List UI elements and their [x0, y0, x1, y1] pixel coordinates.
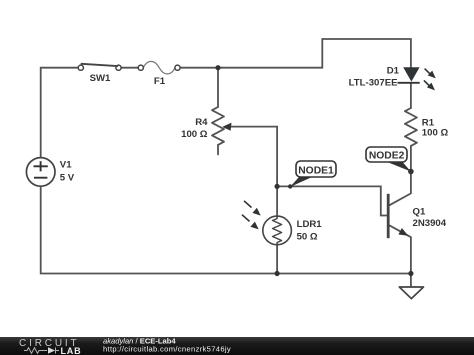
svg-text:50 Ω: 50 Ω — [297, 231, 318, 242]
svg-text:100 Ω: 100 Ω — [181, 129, 208, 140]
svg-text:F1: F1 — [154, 76, 166, 87]
svg-text:R4: R4 — [195, 117, 208, 128]
svg-text:5 V: 5 V — [60, 172, 75, 183]
svg-text:2N3904: 2N3904 — [413, 218, 447, 229]
svg-text:Q1: Q1 — [413, 206, 426, 217]
svg-text:D1: D1 — [387, 65, 400, 76]
svg-text:SW1: SW1 — [90, 73, 111, 84]
svg-text:V1: V1 — [60, 160, 72, 171]
svg-text:LDR1: LDR1 — [297, 219, 323, 230]
svg-text:LTL-307EE: LTL-307EE — [349, 77, 398, 88]
svg-text:LAB: LAB — [61, 346, 82, 355]
svg-text:NODE1: NODE1 — [298, 166, 334, 177]
svg-text:100 Ω: 100 Ω — [422, 128, 449, 139]
svg-text:NODE2: NODE2 — [369, 151, 405, 162]
svg-text:http://circuitlab.com/cnenzrk5: http://circuitlab.com/cnenzrk5746jy — [103, 344, 231, 353]
